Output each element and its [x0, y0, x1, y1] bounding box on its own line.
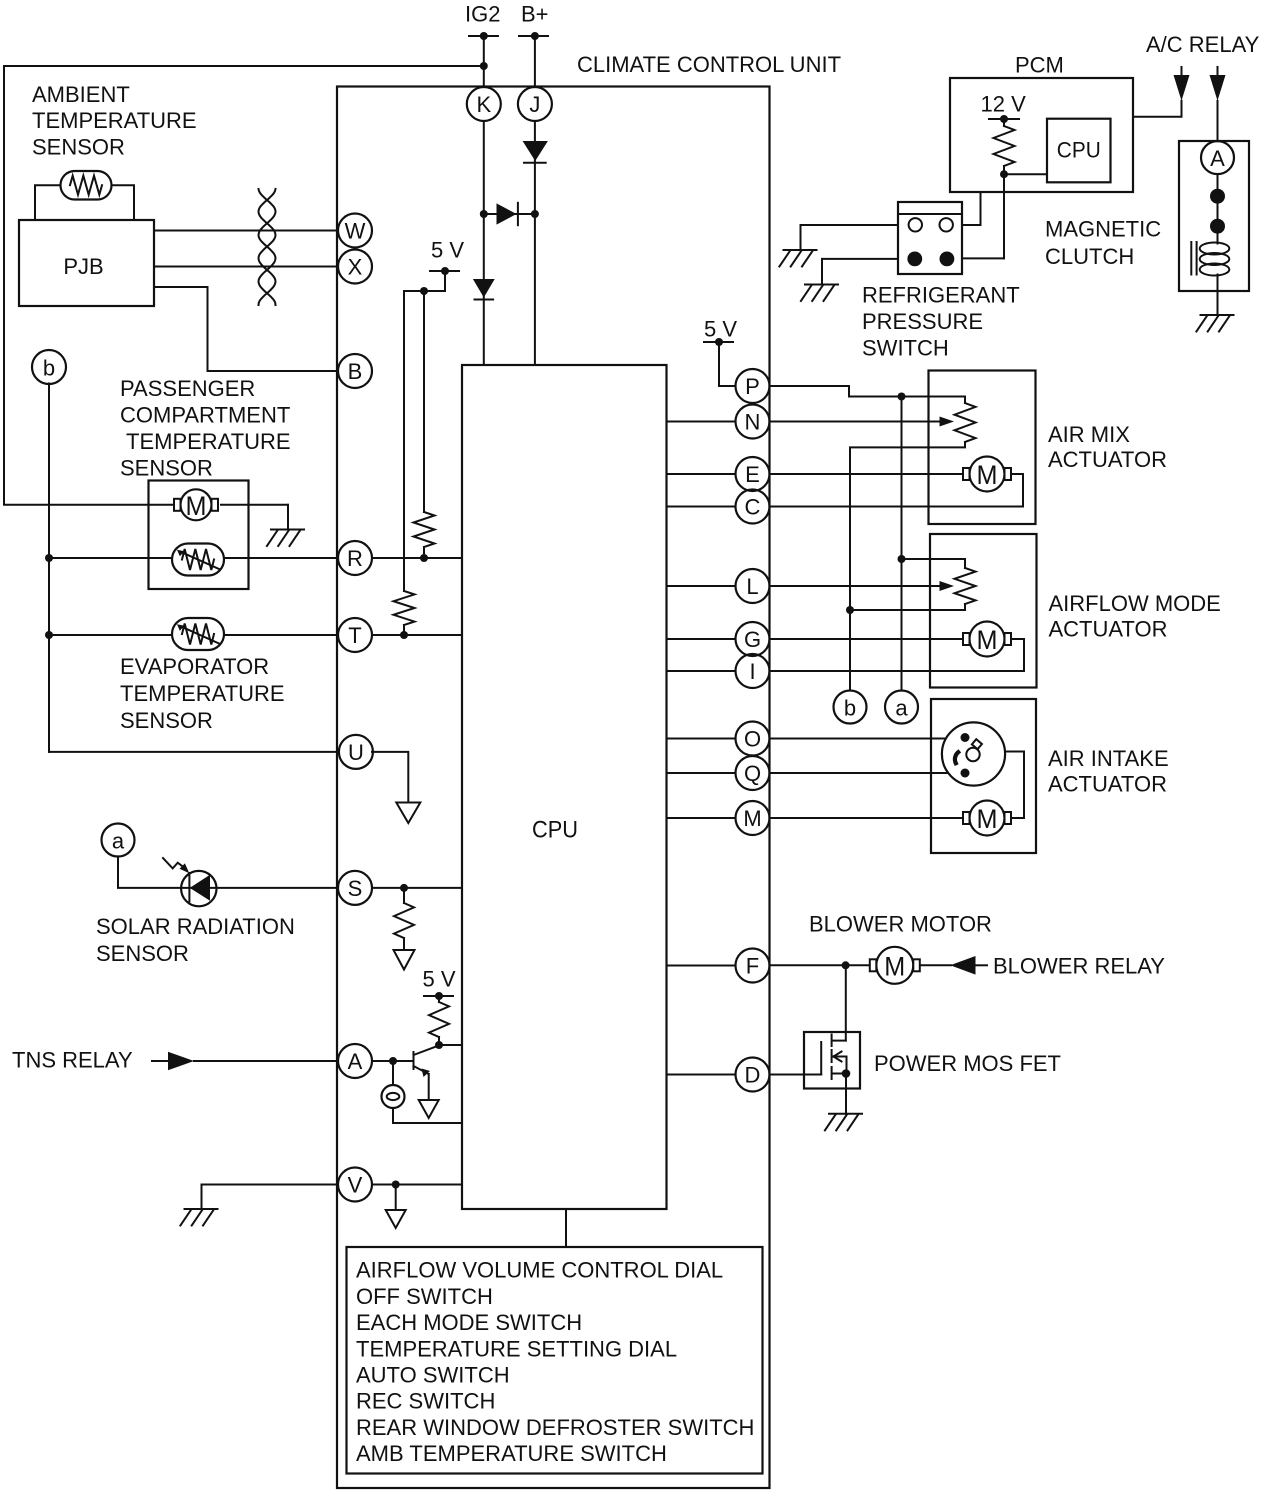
svg-text:POWER MOS FET: POWER MOS FET: [874, 1051, 1061, 1076]
svg-text:W: W: [345, 219, 366, 244]
svg-text:ACTUATOR: ACTUATOR: [1049, 616, 1168, 641]
svg-text:SENSOR: SENSOR: [32, 135, 125, 160]
svg-text:REC SWITCH: REC SWITCH: [356, 1389, 495, 1414]
svg-text:F: F: [746, 954, 759, 979]
svg-text:PASSENGER: PASSENGER: [120, 376, 255, 401]
svg-text:IG2: IG2: [465, 2, 500, 27]
svg-text:M: M: [977, 460, 998, 490]
svg-text:CPU: CPU: [1057, 138, 1101, 163]
svg-text:TNS RELAY: TNS RELAY: [12, 1048, 133, 1073]
svg-text:PCM: PCM: [1015, 53, 1064, 78]
svg-text:AIR MIX: AIR MIX: [1048, 422, 1130, 447]
svg-text:MAGNETIC: MAGNETIC: [1045, 217, 1161, 242]
svg-text:P: P: [745, 374, 760, 399]
svg-text:CLIMATE CONTROL UNIT: CLIMATE CONTROL UNIT: [577, 52, 841, 77]
svg-text:5 V: 5 V: [704, 317, 737, 342]
svg-text:TEMPERATURE: TEMPERATURE: [32, 108, 197, 133]
svg-text:OFF SWITCH: OFF SWITCH: [356, 1284, 493, 1309]
svg-text:V: V: [348, 1173, 363, 1198]
svg-text:R: R: [347, 546, 363, 571]
svg-text:A: A: [348, 1049, 363, 1074]
svg-text:AMBIENT: AMBIENT: [32, 82, 130, 107]
svg-text:ACTUATOR: ACTUATOR: [1048, 771, 1167, 796]
svg-text:B: B: [348, 359, 363, 384]
svg-text:AIRFLOW MODE: AIRFLOW MODE: [1049, 591, 1221, 616]
svg-text:AIRFLOW VOLUME CONTROL DIAL: AIRFLOW VOLUME CONTROL DIAL: [356, 1258, 723, 1283]
svg-text:SENSOR: SENSOR: [120, 456, 213, 481]
svg-text:AUTO SWITCH: AUTO SWITCH: [356, 1363, 510, 1388]
svg-text:TEMPERATURE: TEMPERATURE: [120, 681, 285, 706]
svg-text:EACH MODE SWITCH: EACH MODE SWITCH: [356, 1310, 582, 1335]
svg-text:5 V: 5 V: [423, 967, 456, 992]
svg-text:J: J: [529, 92, 540, 117]
svg-text:EVAPORATOR: EVAPORATOR: [120, 654, 269, 679]
svg-text:ACTUATOR: ACTUATOR: [1048, 447, 1167, 472]
svg-text:a: a: [895, 695, 908, 720]
svg-text:X: X: [348, 255, 363, 280]
svg-text:TEMPERATURE: TEMPERATURE: [126, 429, 291, 454]
svg-text:C: C: [745, 495, 761, 520]
svg-text:Q: Q: [744, 761, 761, 786]
svg-text:REAR WINDOW DEFROSTER SWITCH: REAR WINDOW DEFROSTER SWITCH: [356, 1415, 754, 1440]
svg-text:SENSOR: SENSOR: [96, 941, 189, 966]
svg-text:D: D: [745, 1063, 761, 1088]
svg-text:b: b: [43, 355, 55, 380]
svg-text:B+: B+: [521, 2, 549, 27]
svg-text:CLUTCH: CLUTCH: [1045, 244, 1134, 269]
svg-text:M: M: [884, 951, 905, 981]
svg-text:PRESSURE: PRESSURE: [862, 309, 983, 334]
svg-text:M: M: [977, 804, 998, 834]
svg-text:N: N: [745, 410, 761, 435]
svg-text:AMB TEMPERATURE SWITCH: AMB TEMPERATURE SWITCH: [356, 1441, 667, 1466]
svg-text:5 V: 5 V: [431, 238, 464, 263]
svg-text:G: G: [744, 627, 761, 652]
svg-text:L: L: [746, 574, 758, 599]
svg-text:a: a: [112, 828, 125, 853]
svg-text:BLOWER RELAY: BLOWER RELAY: [993, 954, 1165, 979]
svg-text:COMPARTMENT: COMPARTMENT: [120, 403, 290, 428]
svg-text:REFRIGERANT: REFRIGERANT: [862, 283, 1020, 308]
svg-text:AIR INTAKE: AIR INTAKE: [1048, 746, 1169, 771]
svg-text:E: E: [745, 462, 760, 487]
svg-text:T: T: [348, 623, 361, 648]
svg-text:A/C RELAY: A/C RELAY: [1146, 32, 1260, 57]
svg-text:M: M: [977, 625, 998, 655]
svg-text:M: M: [743, 806, 761, 831]
svg-text:S: S: [348, 876, 363, 901]
svg-text:K: K: [476, 92, 491, 117]
svg-text:b: b: [844, 695, 856, 720]
svg-text:SENSOR: SENSOR: [120, 708, 213, 733]
svg-text:SOLAR RADIATION: SOLAR RADIATION: [96, 914, 295, 939]
svg-text:BLOWER MOTOR: BLOWER MOTOR: [809, 912, 992, 937]
svg-text:U: U: [348, 740, 364, 765]
svg-text:SWITCH: SWITCH: [862, 336, 949, 361]
svg-text:I: I: [749, 659, 755, 684]
svg-text:12 V: 12 V: [981, 92, 1027, 117]
svg-text:CPU: CPU: [532, 816, 578, 843]
svg-text:PJB: PJB: [63, 254, 103, 279]
svg-text:A: A: [1210, 146, 1225, 171]
svg-text:TEMPERATURE SETTING DIAL: TEMPERATURE SETTING DIAL: [356, 1336, 677, 1361]
svg-text:O: O: [744, 727, 761, 752]
svg-text:M: M: [186, 491, 207, 521]
